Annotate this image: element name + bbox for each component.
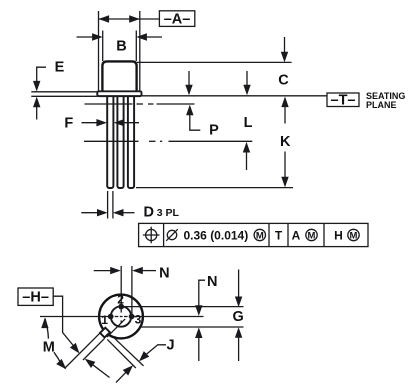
outer circle: [99, 295, 143, 339]
lead 1 side view: [107, 95, 113, 188]
M circle 2: [306, 229, 317, 241]
J lower arrow: [123, 365, 133, 375]
svg-text:B: B: [116, 38, 126, 54]
M arc lower: [54, 352, 62, 365]
P upper outside arrow: [188, 71, 190, 87]
center mark: [115, 309, 128, 323]
svg-text:A: A: [292, 229, 301, 243]
extension line B left: [102, 31, 104, 62]
H leader: [53, 296, 74, 347]
feature control frame: [139, 223, 368, 246]
dimension B right arrow: [145, 36, 162, 38]
N extension line lead 3: [131, 266, 133, 316]
lead 3 side view: [128, 95, 134, 188]
dash-dot line P level: [85, 103, 195, 105]
svg-text:M: M: [308, 231, 316, 242]
centerline right: [134, 316, 204, 318]
svg-text:–A–: –A–: [164, 12, 191, 28]
can cap: [102, 61, 136, 92]
L lower outside arrow: [243, 142, 250, 153]
extension line B right: [135, 31, 137, 62]
K down arrow: [284, 152, 286, 180]
E ext line bottom: [31, 95, 97, 97]
svg-text:2: 2: [117, 293, 124, 307]
G up arrow: [235, 327, 242, 338]
tab side extension line long: [65, 333, 101, 369]
svg-text:3 PL: 3 PL: [157, 207, 180, 219]
D left arrow: [81, 212, 99, 214]
svg-text:P: P: [209, 122, 219, 138]
lead 1 dot: [108, 314, 114, 320]
svg-text:C: C: [278, 73, 289, 89]
tab face extension line inner: [115, 338, 144, 366]
arrowhead A right: [129, 15, 140, 22]
tab centerline: [107, 319, 125, 337]
svg-text:G: G: [232, 309, 243, 325]
extension line A left: [98, 11, 100, 91]
svg-text:–T–: –T–: [331, 92, 356, 108]
E leader: [37, 67, 46, 83]
svg-text:M: M: [256, 231, 264, 242]
svg-text:F: F: [64, 115, 73, 131]
svg-text:L: L: [244, 115, 253, 131]
N top left arrow: [94, 270, 113, 272]
lead2 level line: [124, 306, 244, 308]
centerline left: [40, 316, 108, 318]
E up arrow: [33, 97, 40, 108]
F right arrow: [114, 119, 125, 126]
J leader arrow: [145, 345, 166, 356]
TABLE: [139, 223, 368, 246]
lead tip line: [136, 187, 293, 189]
D right arrow: [113, 209, 124, 216]
svg-text:H: H: [334, 229, 343, 243]
arrowhead A left: [99, 15, 110, 22]
P lower arrow and leader: [186, 105, 193, 116]
E ext line top: [31, 91, 97, 93]
svg-text:3: 3: [135, 313, 142, 327]
M arc upper: [45, 319, 48, 339]
E down arrow: [33, 81, 40, 92]
svg-text:T: T: [275, 229, 283, 243]
dash-dot line L level: [84, 140, 252, 142]
lead circle bottom line: [140, 326, 243, 328]
F left arrow: [82, 122, 100, 124]
svg-text:J: J: [166, 338, 174, 354]
svg-text:0.36 (0.014): 0.36 (0.014): [184, 229, 249, 243]
L upper outside arrow: [246, 71, 248, 87]
M circle 1: [254, 229, 265, 241]
seating plane line: [142, 95, 327, 97]
index tab: [100, 328, 110, 338]
position symbol: [143, 227, 160, 244]
datum box A: [159, 11, 194, 27]
svg-text:1: 1: [101, 313, 108, 327]
lead circle: [111, 306, 131, 326]
lead 2 dot: [118, 304, 124, 310]
svg-text:E: E: [55, 60, 65, 76]
tab side extension line short: [83, 339, 104, 360]
N right bracket leader: [199, 280, 205, 307]
svg-text:N: N: [207, 274, 217, 290]
TOPVIEW: [31, 11, 405, 221]
cap top extension line: [137, 61, 292, 63]
G down arrow: [238, 270, 240, 299]
lead 3 dot: [129, 314, 135, 320]
svg-text:–H–: –H–: [22, 290, 49, 306]
dimension A line: [99, 18, 160, 20]
dimension B left arrow: [77, 36, 95, 38]
tab face extension line outer: [107, 339, 136, 368]
BOTTOMVIEW: [18, 265, 244, 382]
lead 2 side view: [117, 95, 123, 188]
diameter symbol: [166, 229, 178, 241]
svg-text:M: M: [350, 231, 358, 242]
N extension line center: [120, 266, 122, 305]
K up arrow: [281, 97, 288, 108]
datum box H: [18, 288, 53, 305]
datum box T: [327, 93, 359, 107]
C down arrow: [284, 37, 286, 54]
tab width arrow lower: [92, 364, 110, 378]
N top right arrow: [132, 267, 143, 274]
N right up arrow: [195, 327, 202, 338]
can flange: [97, 91, 141, 96]
svg-text:D: D: [144, 204, 154, 220]
svg-text:PLANE: PLANE: [366, 100, 397, 110]
extension line A right: [139, 11, 141, 91]
D extension lines: [107, 191, 109, 219]
svg-text:M: M: [43, 340, 55, 356]
svg-text:N: N: [159, 265, 169, 281]
svg-text:K: K: [280, 134, 291, 150]
M circle 3: [348, 229, 359, 241]
